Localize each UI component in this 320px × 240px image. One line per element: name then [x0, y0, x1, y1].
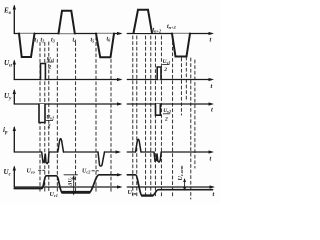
dashed guide right 1 [132, 36, 134, 196]
trapezoid E positive 1 [59, 11, 75, 34]
trapezoid E negative 1 [19, 34, 35, 58]
axis row3 vertical [13, 91, 15, 105]
axis row5 vertical [13, 167, 15, 187]
axis row1 vertical [13, 6, 15, 34]
current i_p double dip 1 [42, 152, 49, 164]
axis row4 segment 2 [49, 151, 58, 153]
dashed guide t3 [56, 43, 58, 193]
axis row2 horizontal right segment [127, 79, 211, 81]
svg-text:Uс2: Uс2 [82, 169, 91, 175]
axis row4 vertical arrowhead [13, 126, 16, 131]
capacitor voltage U_c rise to plateau 2 [89, 175, 119, 193]
svg-text:2: 2 [47, 124, 51, 130]
dashed guide after t2 [48, 42, 50, 192]
axis row2 break arrowhead [117, 78, 123, 81]
axis row5 horizontal right segment [127, 186, 212, 188]
axis row4 right arrowhead [209, 150, 215, 153]
axis row3 horizontal right segment [127, 103, 211, 105]
svg-text:Uс1: Uс1 [50, 192, 58, 198]
svg-text:tn+2: tn+2 [153, 28, 163, 34]
dashed guide t1 [39, 43, 41, 193]
current i_p peak 1 [58, 139, 64, 152]
pulse U_y 2 down [156, 104, 161, 115]
capacitor voltage U_c wave right [127, 175, 212, 196]
svg-text:Uу2: Uу2 [46, 115, 54, 121]
axis row2 horizontal left segment [14, 79, 120, 81]
pulse U_u 1 [41, 64, 46, 80]
dashed guide right 8 [180, 58, 182, 115]
svg-text:tn+3: tn+3 [167, 24, 177, 30]
capacitor voltage U_c low level thick [62, 191, 89, 194]
axis row2 vertical arrowhead [13, 60, 16, 65]
axis row5 horizontal left segment [14, 186, 120, 188]
axis row2 vertical [13, 61, 15, 80]
U_c ost dimension arrow [184, 180, 186, 191]
dashed guide t6 [110, 37, 112, 192]
current i_p peak 2 [136, 139, 142, 152]
U_c ost arrowhead top [183, 178, 186, 182]
axis row2 right arrowhead [209, 78, 215, 81]
axis row4 horizontal left segment [14, 151, 41, 153]
axis row4 right segment a [127, 151, 135, 153]
axis row4 segment 4 [105, 151, 120, 153]
svg-text:Uу2: Uу2 [163, 108, 171, 114]
dashed guide right 4 [150, 36, 152, 196]
axis row5 break arrowhead [117, 185, 123, 188]
axis row3 right arrowhead [209, 102, 215, 105]
svg-text:t: t [211, 83, 213, 90]
current i_p deep dip [98, 152, 105, 166]
dashed guide right 3 [145, 36, 147, 196]
svg-text:Uс.ост: Uс.ост [178, 165, 184, 181]
current i_p double dip 2 [154, 152, 161, 162]
dashed guide t n+2 [160, 36, 162, 196]
svg-text:t: t [210, 37, 212, 44]
wave break arrowhead row5 high [117, 173, 123, 176]
axis row3 vertical arrowhead [13, 89, 16, 94]
axis row1 horizontal left segment [14, 33, 120, 35]
delta U_c arrowhead top [72, 175, 75, 180]
axis row4 vertical [13, 128, 15, 153]
delta U_c reference line [64, 174, 78, 176]
U_c ost arrowhead bottom [183, 188, 186, 192]
capacitor voltage U_c wave left [14, 176, 62, 193]
svg-text:t: t [210, 156, 212, 163]
trapezoid E negative mid [96, 34, 114, 58]
dashed guide right 10 [190, 58, 192, 199]
svg-text:Uсп: Uсп [128, 190, 137, 196]
U_c2 dashed level mark [92, 170, 99, 172]
trapezoid E positive 2 [134, 10, 153, 33]
svg-text:t1: t1 [35, 38, 39, 44]
svg-text:2: 2 [163, 67, 167, 73]
svg-text:t: t [211, 107, 213, 114]
dashed guide t2 [44, 43, 46, 193]
U_co dashed level mark [39, 169, 45, 171]
axis row1 vertical arrowhead [13, 5, 16, 10]
axis row4 right segment c [161, 151, 211, 153]
axis row3 break arrowhead [117, 102, 123, 105]
svg-text:ΔUс: ΔUс [68, 177, 74, 187]
dashed guide right 11 [194, 60, 196, 168]
axis row1 break arrowhead [117, 32, 123, 35]
capacitor voltage U_c low level right thick [142, 194, 153, 196]
axis row1 right arrowhead [209, 32, 215, 35]
dashed guide right 5 [154, 36, 156, 196]
axis row5 vertical arrowhead [13, 166, 16, 171]
axis row1 horizontal right segment [127, 33, 211, 35]
dashed guide t5 [95, 37, 97, 192]
axis row4 break arrowhead [116, 150, 122, 153]
svg-text:Uсо: Uсо [27, 169, 35, 175]
pulse U_u 2 [157, 67, 161, 80]
delta U_c arrowhead bottom [72, 191, 75, 196]
trapezoid E negative 2 [172, 34, 190, 57]
dashed guide right 2 [136, 36, 138, 196]
axis row4 right segment b [141, 151, 153, 153]
pulse U_y 1 down [39, 104, 45, 123]
delta U_c dimension arrow [73, 177, 75, 195]
svg-text:2: 2 [164, 117, 168, 123]
dashed guide right 9 [185, 57, 187, 100]
svg-text:2: 2 [48, 65, 52, 71]
dashed guide t4 [75, 43, 77, 193]
svg-text:t: t [213, 191, 215, 198]
axis row5 right arrowhead [210, 185, 216, 188]
axis row4 segment 3 [64, 151, 99, 153]
dashed guide t n+3 [172, 36, 174, 196]
axis row3 horizontal left segment [14, 103, 120, 105]
